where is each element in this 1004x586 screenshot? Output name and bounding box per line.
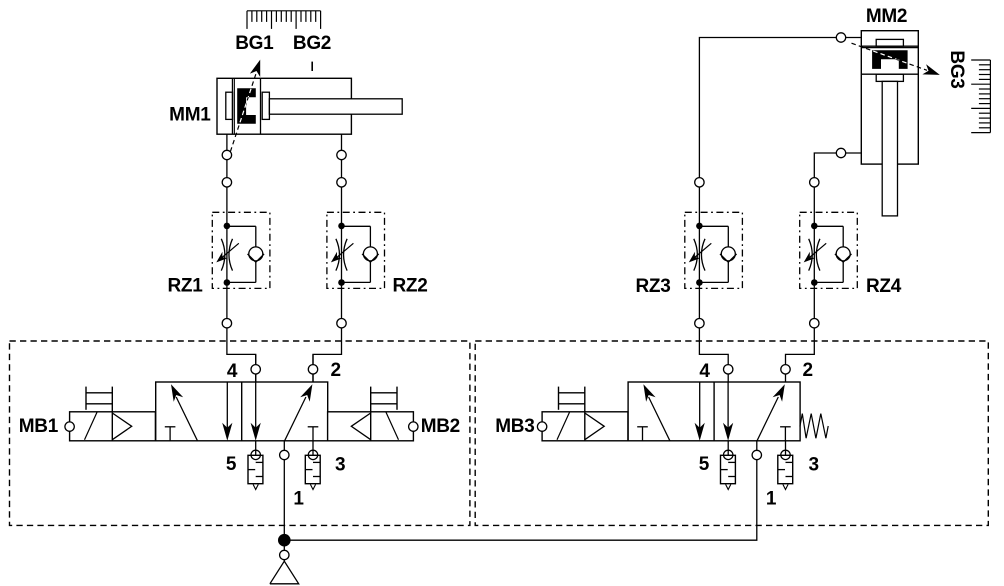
silencer port 3 left valve	[305, 441, 320, 490]
svg-text:5: 5	[226, 454, 237, 475]
connection circle valve port 2 left	[308, 365, 317, 374]
label port 1 right	[766, 489, 777, 510]
proximity sensor arrow BG3	[852, 43, 940, 75]
connection circle port 1 left	[280, 450, 289, 459]
svg-text:RZ2: RZ2	[393, 276, 428, 297]
cylinder MM2 body	[861, 31, 918, 164]
svg-text:MB3: MB3	[495, 416, 534, 437]
label MM2	[866, 6, 907, 27]
cylinder MM1 piston rod	[269, 99, 402, 114]
connection circle MM2 cap port	[836, 33, 845, 42]
connection circle valve port 2 right	[781, 365, 790, 374]
svg-text:1: 1	[293, 489, 304, 510]
svg-text:MM1: MM1	[169, 105, 211, 126]
label BG2	[293, 33, 331, 54]
frame group 1 (left valve sub-circuit) dashed box	[10, 341, 470, 525]
svg-text:5: 5	[699, 454, 710, 475]
connection circle RZ4 bottom	[810, 319, 819, 328]
connection circle MB2	[409, 422, 418, 431]
connection circle valve port 4 right	[724, 365, 733, 374]
label port 4 left	[227, 361, 238, 382]
connection circle MB1	[65, 422, 74, 431]
connection circle RZ3 top	[695, 178, 704, 187]
measuring scale above MM1	[247, 11, 321, 29]
wire MM1 cap-end port to RZ1 to valve port 4	[227, 134, 256, 382]
svg-text:BG1: BG1	[235, 33, 274, 54]
frame group 2 (right valve sub-circuit) dashed box	[475, 341, 988, 525]
connection circle MM2 rod port	[836, 148, 845, 157]
label RZ2	[393, 276, 428, 297]
cylinder MM2 magnetic piston (black C)	[872, 50, 908, 69]
flow control valve RZ2 (throttle + check)	[327, 212, 385, 288]
svg-text:2: 2	[803, 360, 813, 381]
wire MM1 rod-end port to RZ2 to valve port 2	[313, 134, 342, 382]
proximity sensor arrow BG1	[230, 60, 260, 152]
wire MM2 rod-end port to RZ4 to valve port 2	[786, 153, 862, 382]
solenoid actuator MB3 (with pilot)	[542, 387, 628, 441]
svg-text:MB2: MB2	[421, 416, 460, 437]
silencer port 3 right valve	[778, 441, 793, 490]
connection circle RZ1 top	[222, 178, 231, 187]
wire left valve port 1 to supply junction	[283, 441, 285, 561]
flow control valve RZ3 (throttle + check)	[685, 212, 743, 288]
label RZ3	[636, 276, 671, 297]
label MB1	[19, 416, 59, 437]
return spring MB3	[800, 414, 828, 439]
port 2 stub left valve	[312, 354, 314, 382]
compressed air supply junction node	[278, 534, 291, 547]
svg-text:BG3: BG3	[946, 50, 967, 88]
connection circle valve port 4 left	[251, 365, 260, 374]
measuring scale right of MM2	[971, 60, 990, 133]
cylinder MM1 body	[217, 78, 351, 134]
cylinder MM1 magnetic piston (black C)	[237, 88, 256, 124]
label MM1	[169, 105, 211, 126]
svg-text:2: 2	[330, 360, 340, 381]
connection circle MB3	[537, 422, 546, 431]
wire supply junction to right valve port 1	[284, 441, 757, 540]
label port 4 right	[699, 361, 710, 382]
svg-text:RZ1: RZ1	[168, 276, 204, 297]
connection circle RZ4 top	[810, 178, 819, 187]
connection circle RZ2 bottom	[337, 319, 346, 328]
silencer port 5 right valve	[721, 441, 736, 490]
svg-text:4: 4	[227, 361, 238, 382]
label BG3	[946, 50, 967, 88]
wire MM2 cap-end port to RZ3 to valve port 4	[699, 38, 861, 383]
svg-text:RZ4: RZ4	[866, 276, 902, 297]
label port 1 left	[293, 489, 304, 510]
svg-text:RZ3: RZ3	[636, 276, 671, 297]
label RZ1	[168, 276, 204, 297]
label port 5 left	[226, 454, 237, 475]
solenoid actuator MB2 (with pilot)	[328, 387, 414, 441]
port 4 stub left valve	[255, 354, 257, 382]
label MB2	[421, 416, 460, 437]
connection circle RZ1 bottom	[222, 319, 231, 328]
flow control valve RZ4 (throttle + check)	[800, 212, 858, 288]
valve MB1/MB2 5/2-way body	[156, 382, 328, 441]
connection circle port 1 right	[752, 450, 761, 459]
label port 3 left	[335, 455, 345, 476]
label port 5 right	[699, 454, 710, 475]
connection circle MM1 rod port	[337, 150, 346, 159]
label port 2 right	[803, 360, 813, 381]
svg-text:4: 4	[699, 361, 710, 382]
svg-text:BG2: BG2	[293, 33, 331, 54]
connection circle MM1 cap port	[222, 150, 231, 159]
position tick mark below BG2	[311, 62, 313, 71]
label MB3	[495, 416, 534, 437]
label port 3 right	[809, 455, 819, 476]
svg-text:3: 3	[809, 455, 819, 476]
label BG1	[235, 33, 274, 54]
svg-text:3: 3	[335, 455, 345, 476]
cylinder MM2 piston rod	[882, 81, 897, 216]
svg-text:MM2: MM2	[866, 6, 907, 27]
flow control valve RZ1 (throttle + check)	[212, 212, 270, 288]
connection circle RZ2 top	[337, 178, 346, 187]
label RZ4	[866, 276, 902, 297]
connection circle RZ3 bottom	[695, 319, 704, 328]
label port 2 left	[330, 360, 340, 381]
solenoid actuator MB1 (with pilot)	[70, 387, 156, 441]
svg-text:1: 1	[766, 489, 777, 510]
compressed air source symbol	[270, 550, 299, 584]
valve MB3 5/2-way body	[628, 382, 800, 441]
svg-text:MB1: MB1	[19, 416, 59, 437]
silencer port 5 left valve	[248, 441, 263, 490]
